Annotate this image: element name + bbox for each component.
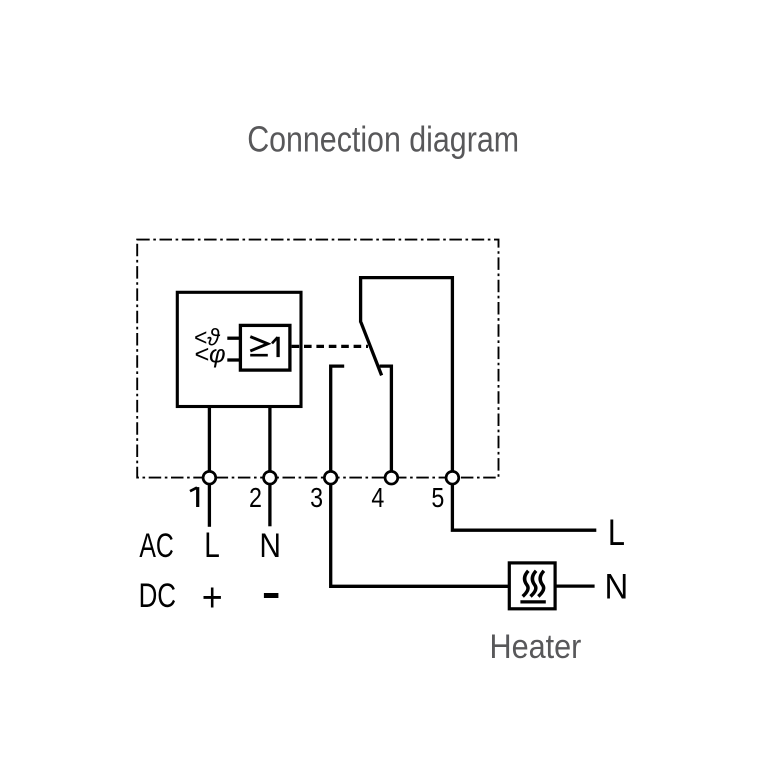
wire box to terminal 2 xyxy=(268,408,271,471)
svg-text:2: 2 xyxy=(249,483,262,513)
dashed control line from gate to switch xyxy=(292,345,368,348)
svg-text:5: 5 xyxy=(431,483,444,513)
wire terminal 1 down xyxy=(208,484,211,527)
svg-text:L: L xyxy=(608,512,625,553)
label − (DC row) xyxy=(264,593,279,598)
svg-text:3: 3 xyxy=(310,483,323,513)
terminal 5 xyxy=(446,471,459,484)
terminal 1 xyxy=(203,471,216,484)
svg-text:4: 4 xyxy=(371,483,384,513)
OR-gate box U2 (≥1) xyxy=(240,325,290,370)
terminal 4 xyxy=(385,471,398,484)
terminal 3 contact stub + riser xyxy=(331,366,345,471)
dash-dot device enclosure border xyxy=(137,240,498,478)
input stub wire (lower, to &lt;φ) xyxy=(227,358,240,361)
switch S1 blade xyxy=(361,322,382,375)
svg-text:+: + xyxy=(202,575,223,621)
wire box to terminal 1 xyxy=(208,408,211,471)
svg-text:DC: DC xyxy=(139,578,176,615)
wire terminal 2 down xyxy=(268,484,271,526)
wire terminal 3 down to heater xyxy=(331,484,510,586)
input stub wire (upper, to &lt;θ) xyxy=(227,337,240,340)
heater wave 2 xyxy=(531,571,537,597)
svg-text:N: N xyxy=(259,526,281,564)
svg-text:AC: AC xyxy=(139,528,173,566)
switch S1 pivot wire + top wire + terminal5 riser xyxy=(361,278,453,472)
≥ symbol (drawn) xyxy=(250,337,267,351)
svg-text:L: L xyxy=(204,525,220,565)
terminal label 1 xyxy=(196,487,199,507)
terminal 3 xyxy=(324,471,337,484)
heater box xyxy=(509,563,555,609)
svg-text:N: N xyxy=(605,568,629,607)
wire heater to N xyxy=(557,584,595,587)
svg-text:Heater: Heater xyxy=(489,628,581,666)
terminal 4 contact stub + riser xyxy=(380,366,392,471)
svg-text:Connection diagram: Connection diagram xyxy=(247,120,519,160)
terminal 2 xyxy=(264,471,277,484)
heater underline xyxy=(520,600,545,603)
svg-text:<φ: <φ xyxy=(194,341,226,369)
heater wave 3 xyxy=(538,571,544,597)
gate label 1 xyxy=(276,337,279,357)
heater wave 1 xyxy=(523,571,529,597)
wire terminal 5 down right to L xyxy=(452,484,596,530)
device box U1 xyxy=(177,292,301,406)
